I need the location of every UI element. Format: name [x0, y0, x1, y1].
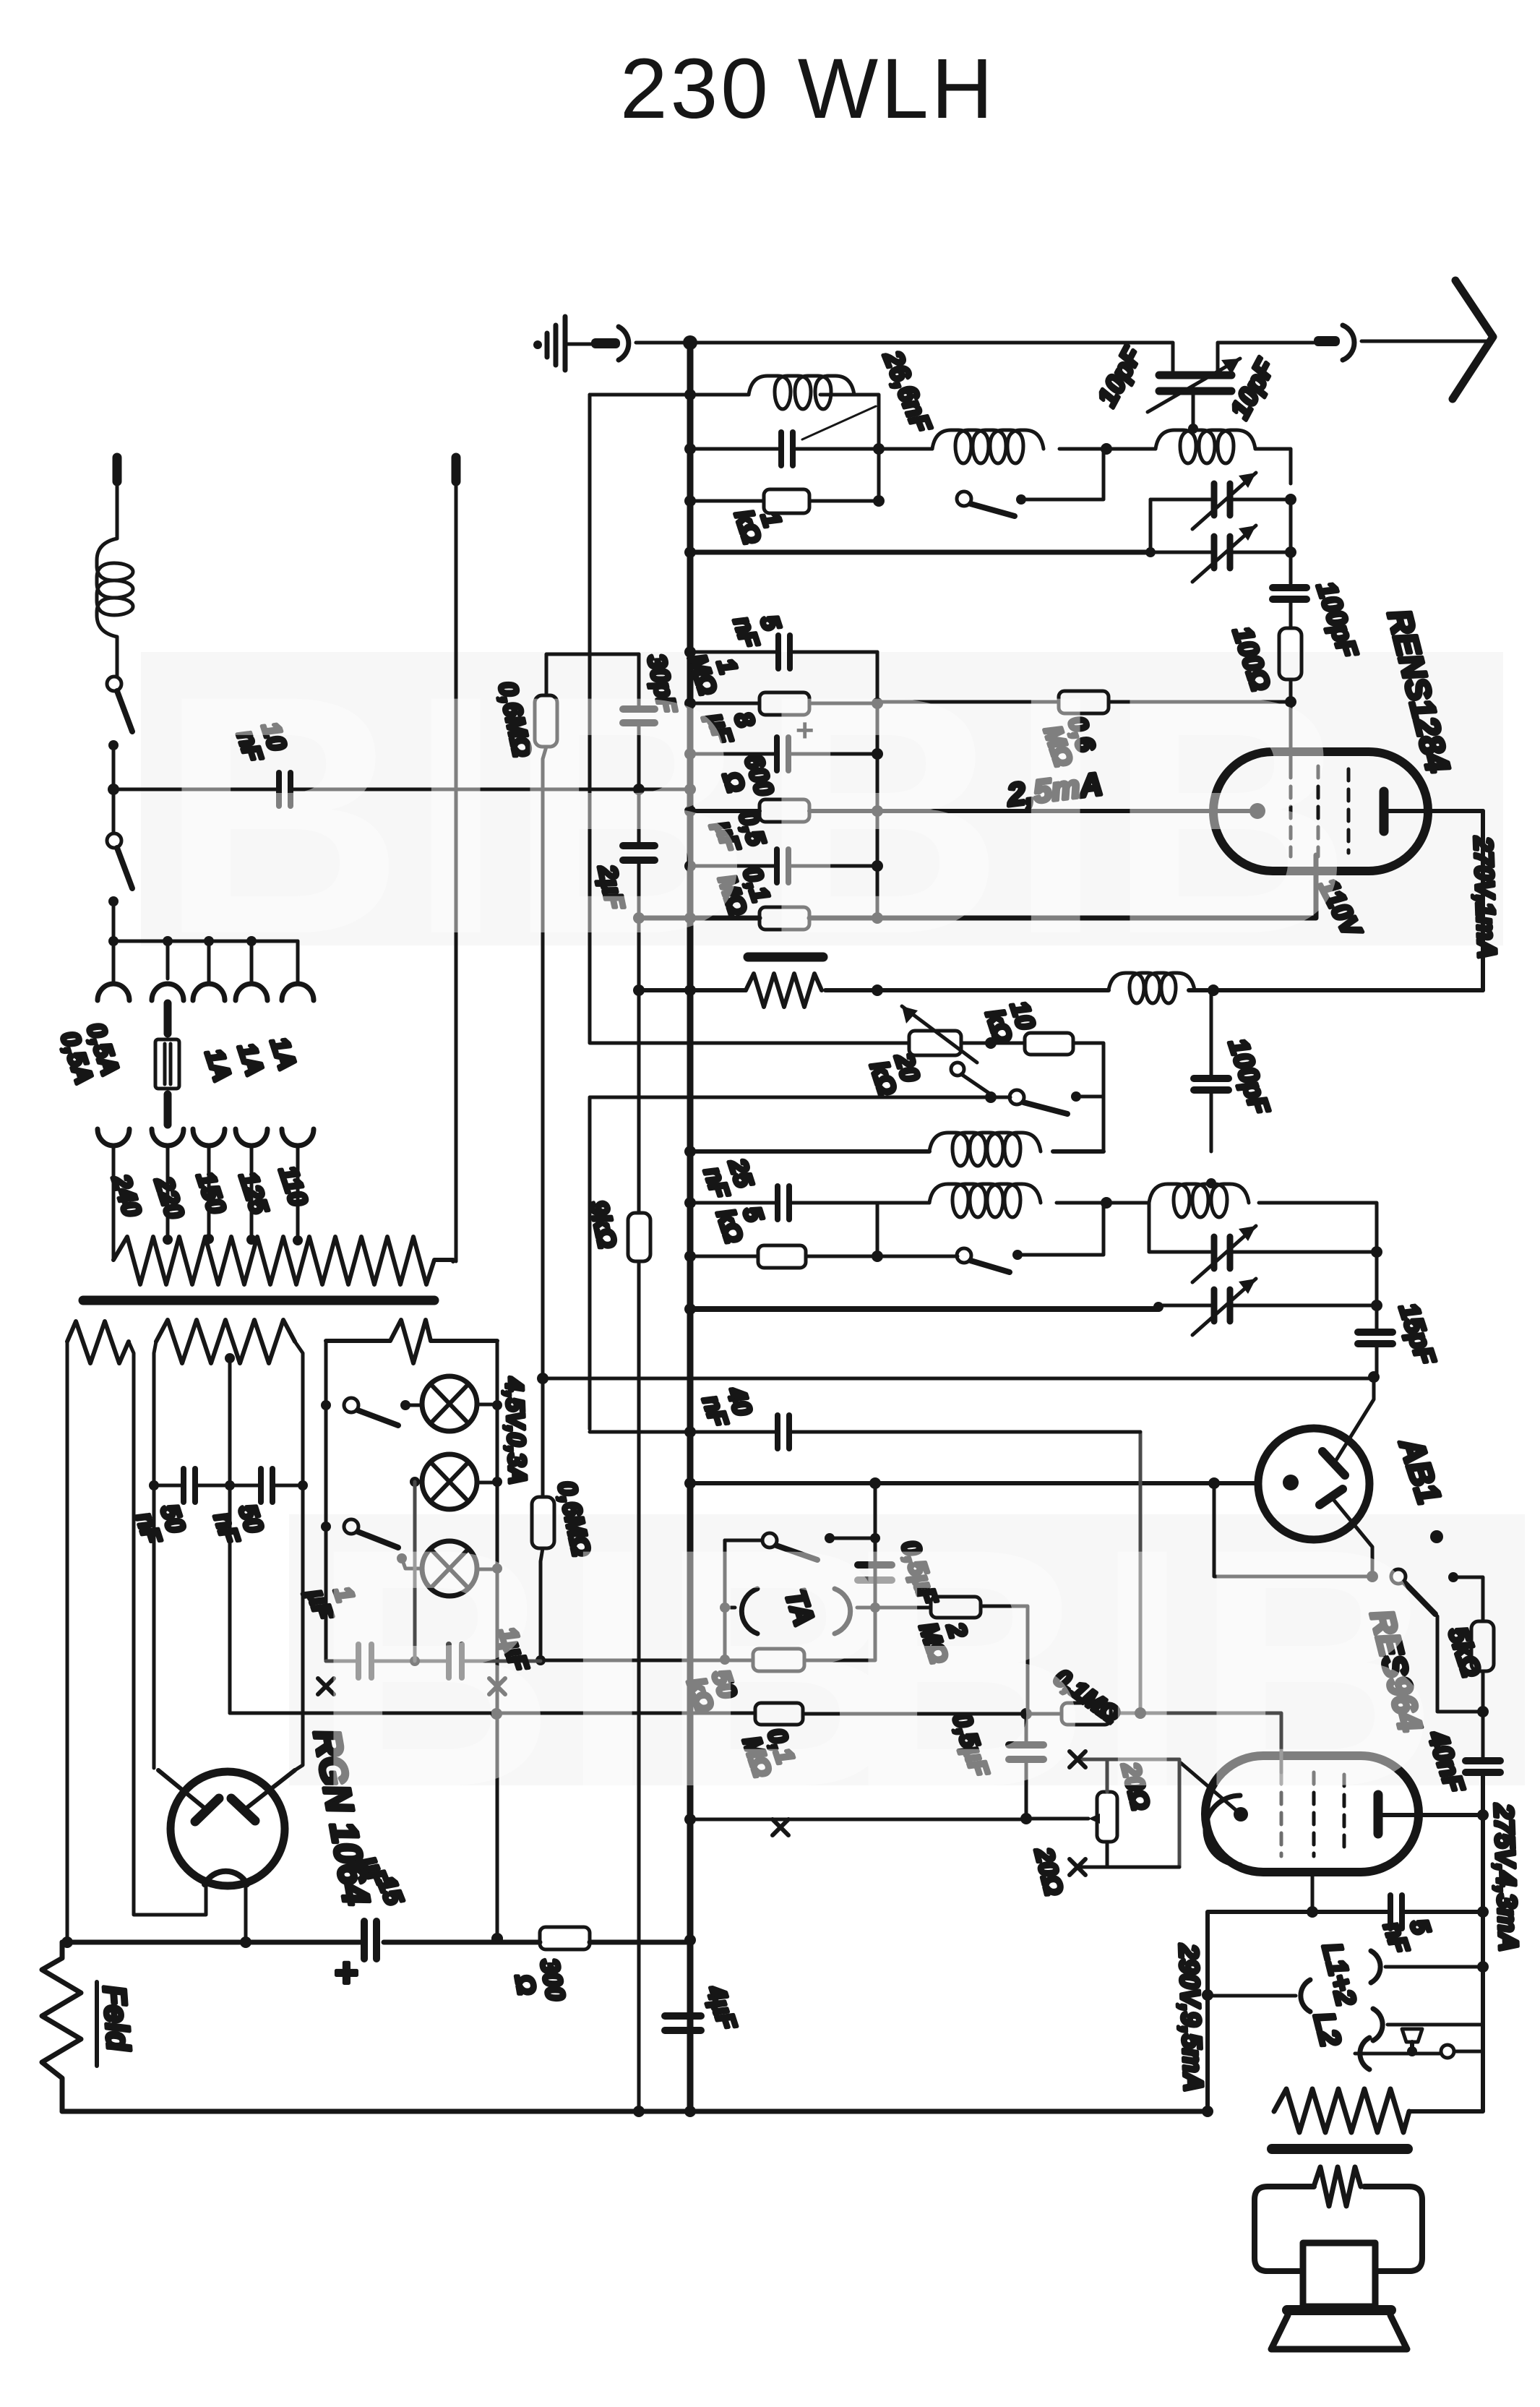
capacitor 0,5uF bias	[1009, 1745, 1044, 1759]
capacitor 40nF right	[1466, 1761, 1500, 1772]
switch band2 S2	[957, 1203, 1104, 1272]
resistor 1MOhm	[760, 692, 809, 715]
wire 26,6nF row	[690, 447, 879, 451]
wire hum bottom row	[1077, 1842, 1179, 1867]
wire filament right lead	[129, 1342, 206, 1915]
switch mains S8	[107, 833, 132, 906]
wire 8uF row	[690, 752, 877, 756]
capacitor 30pF	[623, 709, 655, 723]
speaker bar	[1287, 2305, 1391, 2315]
wire HV center tap	[228, 1358, 232, 1713]
capacitor variable B	[1192, 525, 1256, 582]
watermark BIB letters overlay	[159, 625, 1443, 1858]
lamp 3	[397, 1541, 497, 1596]
inductor antenna coil 3	[1156, 430, 1255, 463]
inductor mains choke	[97, 539, 133, 677]
capacitor 10nF	[279, 773, 291, 806]
lamp 1	[400, 1376, 497, 1431]
switch lamp S9	[344, 1519, 398, 1548]
speaker voice coil loop	[1255, 2187, 1422, 2271]
wire anode blocking row 2645	[1208, 1912, 1483, 2111]
resistor 600 Ohm	[760, 799, 809, 822]
x mark hum top	[1070, 1751, 1085, 1767]
selector sockets upper row	[98, 984, 314, 1000]
svg-text:275V,4,3mA: 275V,4,3mA	[1489, 1803, 1523, 1952]
svg-text:Feld: Feld	[96, 1984, 136, 2053]
wire lamp right rail	[496, 1341, 499, 1939]
wire lamp left rail	[324, 1341, 328, 1661]
wire 0,6M chain middle	[543, 747, 546, 1497]
wire 0,6M chain top	[546, 654, 639, 695]
inductor antenna coil 2	[932, 430, 1044, 463]
resistor lamp ballast zigzag	[390, 1320, 431, 1363]
wire varcap A row	[1150, 498, 1291, 502]
fuse 1A arcs	[725, 1589, 875, 1634]
x mark lamp left	[318, 1678, 334, 1694]
wire L2 tap row	[1355, 2051, 1483, 2054]
tube AB1 plate2 lead	[1332, 1498, 1372, 1576]
svg-text:4,5V,0,3A: 4,5V,0,3A	[500, 1376, 531, 1485]
wire 50kOhm row 2296	[541, 1659, 875, 1662]
watermark background bands	[141, 652, 1525, 1785]
inductor L2 arc a	[1373, 2009, 1382, 2041]
capacitor 0,5uF pickup	[858, 1565, 892, 1580]
resistor field coil zigzag	[42, 1942, 81, 2111]
tube RES964 grid3 dashed	[1343, 1775, 1346, 1854]
switch AB1 S4	[1391, 1569, 1435, 1614]
tube RES964 cathode arc	[1205, 1795, 1240, 1865]
tube RENS1284 grid1 dashed	[1289, 766, 1293, 857]
tap slider L2	[1402, 2029, 1422, 2056]
speaker magnet box	[1303, 2243, 1375, 2307]
terminal mains left	[113, 458, 122, 539]
switch L2 tap circle	[1441, 2045, 1454, 2058]
resistor 0,1MOhm b	[1062, 1703, 1111, 1725]
terminal pickup right	[452, 458, 461, 1261]
wire 1MOhm row	[690, 702, 877, 705]
inductor L2 arc b	[1360, 2038, 1369, 2069]
label Feld	[96, 1982, 136, 2066]
switch mains S7	[107, 677, 132, 750]
tube RENS1284 envelope	[1213, 752, 1428, 871]
speaker cone	[1271, 2315, 1407, 2349]
capacitor 1uF b	[449, 1644, 462, 1678]
bar speaker core	[1272, 2144, 1408, 2154]
x mark bias	[773, 1819, 788, 1835]
wire 1kOhm row	[690, 449, 879, 501]
wire 0,1MOhm screen row	[639, 855, 1316, 918]
wire lamp2 column	[413, 1482, 417, 1661]
tube RENS1284 grid3 dashed	[1347, 769, 1351, 853]
capacitor 8uF electrolytic	[777, 713, 814, 771]
wire coil3 to varcap rail	[1255, 449, 1291, 484]
wire 100pF IF drop	[1210, 990, 1213, 1151]
potentiometer 20 Ohm hum	[1088, 1792, 1117, 1842]
capacitor 5nF	[778, 635, 790, 669]
switch pickup S5	[762, 1533, 817, 1560]
wire 5k to 40nF	[1481, 1671, 1485, 1757]
svg-text:BIB: BIB	[846, 1478, 1443, 1858]
wire RES964 bottom lead	[1311, 1872, 1315, 1912]
resistor 5kOhm	[758, 1245, 806, 1268]
wire bus row 764	[690, 550, 1150, 555]
antenna coupling arc	[1314, 325, 1354, 360]
switch lamp S6	[344, 1398, 398, 1425]
wire HV right anode lead	[295, 1342, 303, 1770]
wire 25nF IF2 row	[690, 1203, 1377, 1252]
resistor 100Ohm	[1279, 628, 1302, 679]
wire 0,5uF column	[1025, 1714, 1028, 1819]
capacitor variable A	[1192, 473, 1256, 529]
wire B+ line	[62, 1940, 690, 1945]
tube RES964 cathode dot	[1234, 1807, 1248, 1822]
wire selector bar	[113, 901, 298, 941]
capacitor 100pF top	[1273, 588, 1307, 599]
inductor IF coil a	[1109, 973, 1195, 1003]
selector pins upper	[113, 941, 298, 982]
tube RGN1064 anode left plate	[158, 1770, 219, 1822]
wire HV left anode lead	[154, 1342, 156, 1768]
wire 5kOhm row	[690, 1203, 958, 1256]
wire anode drop	[1481, 811, 1485, 990]
wire AB1 cathode row 2052	[690, 1481, 1258, 1485]
resistor AVC zigzag	[746, 974, 822, 1007]
potentiometer 20kOhm	[902, 1006, 977, 1063]
wire plate rail right	[1481, 1772, 1485, 2051]
wire RGN cathode down	[244, 1884, 248, 1942]
resistor 300 Ohm	[540, 1927, 590, 1949]
svg-text:270V,1mA: 270V,1mA	[1468, 836, 1502, 959]
selector pins lower	[113, 1148, 298, 1260]
wire osc coil row	[690, 1149, 1104, 1154]
wire 10nF row	[113, 788, 690, 791]
tube RES964 cathode lead diagonal	[1181, 1763, 1241, 1814]
wire cap to 100ohm	[1289, 599, 1293, 628]
wire 5k branch	[1453, 1577, 1483, 1621]
wiper circle 20k	[951, 1063, 991, 1094]
wire 2MOhm row	[875, 1606, 1028, 1714]
switch band S1	[957, 449, 1104, 516]
label 1A 1A 1A	[199, 1034, 301, 1085]
tube RES964 anode	[1378, 1795, 1483, 1834]
wire pickup column right	[874, 1483, 877, 1660]
resistor 5kOhm AB1	[1471, 1621, 1494, 1671]
wire varcap D row	[1158, 1304, 1377, 1308]
tube AB1 cathode dot	[1283, 1475, 1299, 1490]
wire S4 to 40nF	[1437, 1616, 1483, 1712]
capacitor variable D	[1192, 1279, 1256, 1335]
wire between switches	[112, 745, 116, 833]
wire main bus	[687, 341, 694, 2112]
wire 600 Ohm cathode row	[690, 809, 1257, 813]
tube AB1 diode plate 1	[1322, 1451, 1345, 1475]
tube RENS1284 grid2 dashed	[1317, 766, 1320, 857]
wire x884 column	[637, 654, 641, 2111]
capacitor 5nF out	[1390, 1895, 1402, 1928]
tube RENS1284 cathode dot	[1249, 803, 1265, 819]
wire RES964 grid feed	[1111, 1432, 1281, 1772]
tube RGN1064 anode right plate	[231, 1770, 295, 1821]
wire AVC zigzag row	[639, 988, 1483, 992]
wire 0,6M AVC row	[877, 700, 1291, 704]
wire pot row 1443	[590, 395, 1104, 1151]
svg-text:+: +	[334, 1949, 358, 1995]
tube RES964 grid2 dashed	[1312, 1772, 1316, 1856]
capacitor 4uF	[665, 2016, 701, 2030]
inductor L1+2 arc a	[1371, 1951, 1380, 1983]
tube RENS1284 anode	[1384, 791, 1483, 831]
svg-text:290V,9,5mA: 290V,9,5mA	[1174, 1943, 1208, 2093]
wire 100ohm to grid node	[1289, 679, 1293, 769]
inductor IF coil b	[929, 1184, 1041, 1217]
inductor aerial coil L-ant	[749, 376, 854, 409]
wire 15pF drop	[1375, 1252, 1379, 1377]
resistor voice coil zigzag	[1314, 2167, 1361, 2206]
resistor 9kOhm	[628, 1213, 650, 1261]
lamp box top with ballast	[326, 1339, 497, 1343]
wire L1+2 right	[1385, 1965, 1483, 1969]
wire hum row 2516	[690, 1819, 1088, 1819]
wire L2 top right	[1388, 2023, 1483, 2027]
resistor 0,6MOhm upper	[535, 695, 557, 747]
bar AVC plate	[748, 953, 823, 962]
capacitor 15uF	[364, 1921, 377, 1959]
x mark lamp right	[489, 1678, 505, 1694]
wire 50nF row	[154, 1484, 303, 1488]
wire row 1518	[590, 1096, 1010, 1099]
inductor L1+2 arc b	[1301, 1980, 1310, 2012]
transformer primary winding	[113, 1237, 453, 1284]
resistor 0,1MOhm screen	[760, 907, 809, 930]
resistor 0,1MOhm a	[755, 1703, 803, 1725]
fuse 0,5A	[155, 1003, 179, 1125]
resistor 1kOhm	[764, 489, 809, 513]
node bus x aerial row	[684, 389, 696, 400]
antenna	[1453, 280, 1493, 399]
capacitor 50nF a	[184, 1469, 195, 1502]
resistor speaker zigzag	[1274, 2089, 1409, 2132]
capacitor 0,5uF	[777, 849, 788, 883]
wire 0,5uF row	[690, 864, 877, 868]
tube RGN1064 envelope	[171, 1772, 285, 1886]
node bus top junction	[683, 335, 697, 350]
tube RGN1064 filament arc	[205, 1871, 247, 1884]
capacitor trimmer 10pF	[1148, 359, 1240, 426]
capacitor 2uF	[623, 846, 655, 860]
wire ladder rail	[876, 652, 879, 918]
wire filament left to B+	[66, 1342, 69, 1942]
wire ground bottom line	[62, 2109, 1208, 2114]
svg-text:BIB: BIB	[311, 1478, 908, 1858]
ground	[533, 317, 620, 370]
tube AB1 diode plate 2	[1320, 1489, 1343, 1505]
lamp 2	[410, 1454, 497, 1509]
wire 1uF gray row	[326, 1660, 541, 1663]
capacitor 25nF	[778, 1186, 789, 1219]
wire bus row 1811	[690, 1306, 1158, 1312]
wire 0,6M chain bottom	[541, 1548, 543, 1660]
capacitor variable C	[1192, 1226, 1256, 1282]
wire varcap right rail down	[1289, 499, 1293, 583]
ground coupling arc	[619, 327, 629, 360]
resistor 0,6MOhm avc	[1059, 691, 1109, 713]
wire hum top row	[1077, 1759, 1179, 1867]
capacitor 40nF	[778, 1415, 789, 1449]
transformer core	[83, 1296, 434, 1305]
wire L1+2 left	[1208, 1994, 1296, 1998]
wire varcap C row	[1149, 1203, 1377, 1252]
svg-text:BIB: BIB	[759, 625, 1356, 1005]
svg-text:BIB: BIB	[159, 625, 757, 1005]
node dot right of AB1	[1430, 1530, 1443, 1543]
wire switch row 2131	[725, 1538, 875, 1540]
wire right down to speaker	[1409, 2051, 1483, 2111]
wire aerial coil row	[590, 395, 879, 449]
tube RES964 envelope	[1205, 1756, 1419, 1872]
resistor 10kOhm	[1025, 1033, 1073, 1055]
capacitor 1uF a	[358, 1644, 371, 1678]
wire grid bias row 2371	[230, 1713, 1062, 1714]
capacitor 100pF IF	[1194, 1078, 1229, 1090]
wire AB1 bottom row 2181	[1214, 1483, 1372, 1576]
transformer winding rectifier filament	[67, 1321, 129, 1363]
tube RES964 grid1 dashed gray	[1280, 1772, 1283, 1856]
switch osc S3	[1010, 1090, 1104, 1114]
inductor IF coil c	[1149, 1184, 1249, 1217]
wire varcap B row and left rail	[1150, 499, 1291, 552]
wire AVC long row 1907	[543, 1377, 1374, 1381]
tube AB1 grid lead	[1335, 1377, 1374, 1462]
wire 5nF row	[690, 651, 877, 654]
resistor 2MOhm	[931, 1597, 981, 1618]
wire antenna lead	[1218, 341, 1487, 373]
resistor 50kOhm	[753, 1649, 804, 1671]
wire top row	[636, 343, 1173, 373]
selector sockets lower row	[98, 1129, 314, 1146]
transformer winding HV	[156, 1320, 295, 1363]
capacitor 50nF b	[261, 1469, 272, 1502]
wire pickup column left	[723, 1540, 727, 1660]
inductor osc coil	[929, 1133, 1041, 1166]
wire 40nF row 1985	[590, 1099, 1140, 1432]
x mark hum bottom	[1070, 1859, 1085, 1875]
svg-text:230 WLH: 230 WLH	[620, 41, 996, 137]
wire coil2 to coil3	[879, 447, 1156, 451]
capacitor 26,6nF	[781, 406, 876, 465]
tube AB1 envelope	[1258, 1428, 1369, 1540]
capacitor 15pF	[1358, 1332, 1393, 1344]
resistor 0,6MOhm lower	[532, 1497, 554, 1548]
